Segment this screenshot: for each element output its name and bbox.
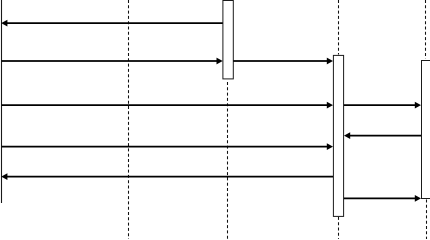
message arrow 5 (lifeline A to bar2, y=146.6) (2, 143, 334, 150)
message arrow 8 (bar3 to bar2, y=135.6) (344, 132, 421, 139)
message arrow 2 (lifeline A to bar1, y=61) (2, 58, 223, 65)
activation bar 3 (422, 61, 430, 199)
activation bar 2 (333, 55, 343, 216)
lifeline D upper (dashed, above activation bar 2) (338, 0, 340, 55)
message arrow 9 (bar2 to bar3 bottom, y=198.4) (344, 195, 421, 202)
lifeline E lower (dashed, below activation bar 3) (426, 200, 428, 240)
message arrow 7 (bar2 to bar3, y=105) (344, 102, 421, 109)
activation bar 1 (223, 1, 233, 79)
message arrow 1 (bar1 to lifeline A, y=23) (1, 20, 223, 27)
lifeline B (dashed, full height) (128, 0, 130, 239)
message arrow 6 (bar2 to lifeline A, y=176.6) (1, 173, 333, 180)
lifeline C (dashed, below activation bar 1) (227, 82, 229, 239)
message arrow 3 (bar1 to bar2, y=61) (233, 58, 333, 65)
lifeline D lower (dashed, below activation bar 2) (338, 217, 340, 239)
lifeline A (left object, solid segment) (1, 0, 3, 203)
lifeline E upper (dashed, above activation bar 3) (425, 0, 427, 59)
message arrow 4 (lifeline A to bar2, y=105) (2, 102, 334, 109)
